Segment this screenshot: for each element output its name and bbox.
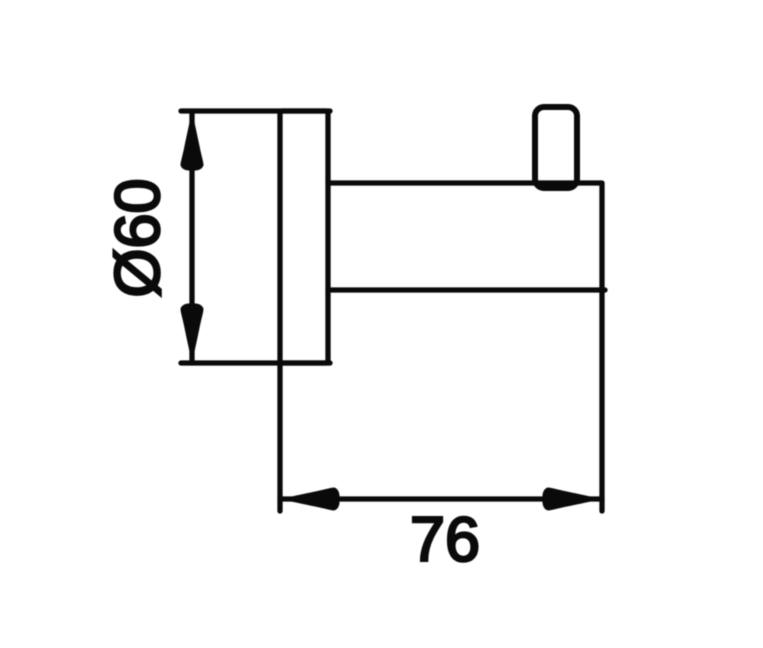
hook arm bottom edge <box>328 287 605 292</box>
dimension line 76 <box>280 496 602 501</box>
arrowhead right (76 right) <box>543 488 602 511</box>
left extension line for 76 <box>277 363 282 511</box>
arrowhead down (Ø60 bottom) <box>181 304 204 363</box>
arrowhead left (76 left) <box>281 488 340 511</box>
top extension line <box>181 108 330 113</box>
arrowhead up (Ø60 top) <box>181 112 204 171</box>
wall plate (side view) <box>280 111 328 363</box>
svg-text:Ø60: Ø60 <box>103 178 173 297</box>
bottom extension line <box>181 360 330 365</box>
dimension line Ø60 <box>189 111 194 363</box>
hook peg <box>535 107 577 188</box>
svg-text:76: 76 <box>410 505 480 575</box>
hook arm top edge and right edge <box>328 183 602 511</box>
